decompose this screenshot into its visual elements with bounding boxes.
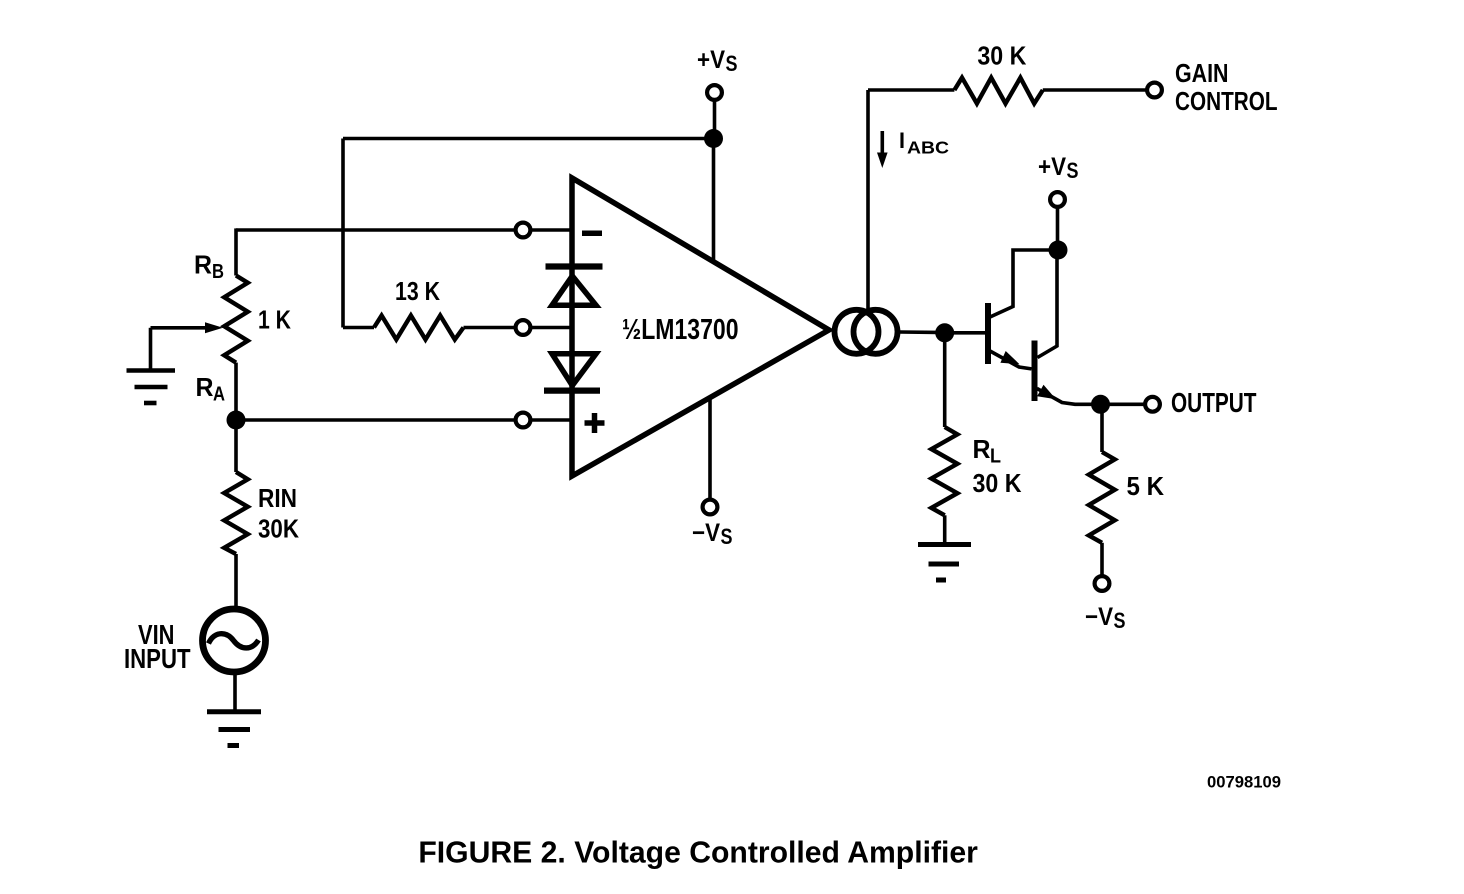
svg-text:30K: 30K: [258, 514, 299, 544]
svg-text:A: A: [213, 384, 225, 406]
junction dot node B: [935, 323, 954, 342]
svg-text:1 K: 1 K: [258, 305, 291, 335]
label plus input: [585, 420, 605, 426]
wire diode bias circle to diode stem: [530, 326, 571, 330]
sine wave inside source: [209, 634, 259, 648]
svg-text:FIGURE 2. Voltage Controlled A: FIGURE 2. Voltage Controlled Amplifier: [418, 835, 978, 870]
diode D1 triangle: [552, 276, 596, 305]
terminal: diode bias input circle: [516, 320, 531, 335]
wire node B down to RL: [943, 333, 947, 427]
terminal +VS top circle: [707, 85, 722, 100]
svg-text:+V: +V: [1038, 153, 1066, 181]
svg-text:ABC: ABC: [907, 138, 949, 158]
transistor Q1 collector: [990, 250, 1052, 317]
transistor Q2 collector: [1038, 250, 1058, 358]
wire source to ground: [233, 671, 237, 712]
wire output node to 5K: [1100, 404, 1104, 452]
svg-text:S: S: [1114, 608, 1126, 633]
svg-text:+V: +V: [697, 46, 725, 74]
wire inverting circle to triangle: [530, 228, 571, 232]
svg-text:L: L: [990, 446, 1001, 468]
terminal -VS circle: [703, 500, 718, 515]
wire wiper to ground: [149, 328, 153, 371]
svg-text:½LM13700: ½LM13700: [622, 314, 739, 346]
resistor 5 K: [1089, 452, 1115, 543]
terminal OUTPUT circle: [1145, 397, 1160, 412]
wire 5K to -VS terminal: [1100, 543, 1104, 577]
terminal +VS (buffer) circle: [1050, 192, 1065, 207]
wire junction to RIN: [234, 420, 238, 472]
svg-text:R: R: [196, 372, 214, 402]
svg-text:I: I: [899, 128, 905, 153]
terminal GAIN CONTROL circle: [1147, 83, 1162, 98]
junction dot output node: [1091, 395, 1110, 414]
svg-text:30 K: 30 K: [977, 41, 1026, 71]
wire pot bottom to junction: [234, 363, 238, 420]
svg-text:RIN: RIN: [258, 483, 297, 513]
svg-text:R: R: [194, 250, 212, 280]
resistor 13 K: [343, 316, 516, 340]
arrow IABC: [880, 131, 884, 155]
wire +VS terminal to junction: [713, 100, 717, 139]
ground (VIN source): [207, 712, 261, 746]
resistor 30 K gain control: [868, 78, 1147, 104]
diode D2 cathode bar: [544, 387, 600, 393]
svg-text:S: S: [726, 51, 738, 76]
transistor Q1 emitter: [990, 351, 1032, 369]
wire RL to ground: [943, 515, 947, 544]
svg-text:S: S: [1067, 158, 1079, 183]
wire output node to terminal: [1101, 402, 1146, 406]
svg-text:−V: −V: [1085, 603, 1113, 631]
wire noninverting circle to triangle: [530, 418, 571, 422]
transistor Q1 base bar: [985, 303, 991, 364]
source VIN circle: [203, 609, 266, 672]
svg-text:00798109: 00798109: [1207, 773, 1281, 792]
wire RIN to source: [234, 554, 238, 610]
wire pot top: [234, 228, 238, 275]
wire node B to Q1 base: [945, 331, 985, 335]
svg-text:−V: −V: [692, 519, 720, 547]
op-amp U1 half LM13700 triangle: [572, 178, 829, 476]
terminal -VS (buffer) circle: [1095, 576, 1110, 591]
transistor Q2 emitter: [1037, 389, 1093, 405]
wire +VS rail down to 13K: [341, 139, 345, 328]
svg-text:13 K: 13 K: [395, 276, 440, 306]
svg-text:30 K: 30 K: [973, 468, 1022, 498]
wire IABC vertical: [866, 90, 870, 310]
svg-text:OUTPUT: OUTPUT: [1171, 387, 1257, 418]
ground (RL): [918, 545, 971, 581]
svg-text:5 K: 5 K: [1127, 471, 1165, 501]
resistor RL 30 K: [931, 427, 957, 515]
resistor RIN 30K: [224, 472, 248, 554]
terminal: noninverting input circle: [516, 413, 531, 428]
svg-text:S: S: [721, 524, 733, 549]
svg-text:R: R: [973, 434, 991, 464]
junction dot node A (RA / RIN / + input): [227, 411, 246, 430]
label minus input: [582, 231, 602, 237]
terminal: inverting input circle: [516, 223, 531, 238]
svg-text:B: B: [212, 261, 224, 283]
diode D2 triangle: [552, 354, 596, 386]
junction dot on +VS rail: [704, 129, 723, 148]
wire -VS pin from triangle: [708, 396, 712, 500]
diode D1 cathode bar: [546, 263, 603, 269]
svg-text:CONTROL: CONTROL: [1175, 86, 1278, 116]
transistor Q2 base bar: [1032, 341, 1038, 402]
OTA output double circle right: [854, 310, 898, 354]
OTA output double circle left: [835, 310, 879, 354]
wire noninverting input horizontal: [236, 418, 516, 422]
arrowhead Q1 emitter: [1000, 351, 1019, 364]
svg-text:GAIN: GAIN: [1175, 58, 1229, 88]
svg-text:INPUT: INPUT: [124, 643, 191, 674]
junction dot +VS (transistor collectors): [1049, 241, 1068, 260]
wire +VS rail horizontal: [343, 137, 714, 141]
arrowhead Q2 emitter: [1037, 385, 1056, 400]
potentiometer RB/RA 1K: [224, 276, 248, 363]
wire +VS terminal to collector junction: [1056, 207, 1060, 251]
wire inverting input horizontal: [236, 228, 516, 232]
wire OTA output to node B: [900, 330, 939, 334]
wiper arrow of pot: [151, 326, 209, 330]
wire +VS pin into triangle: [712, 139, 716, 263]
ground (wiper): [127, 371, 176, 404]
